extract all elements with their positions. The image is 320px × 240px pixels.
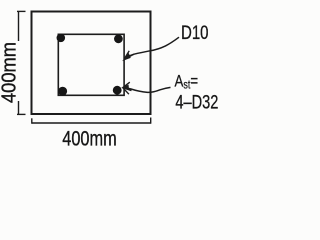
svg-text:400mm: 400mm	[0, 42, 20, 103]
svg-text:4–D32: 4–D32	[175, 93, 218, 114]
svg-text:D10: D10	[181, 23, 209, 44]
svg-text:400mm: 400mm	[62, 128, 117, 149]
